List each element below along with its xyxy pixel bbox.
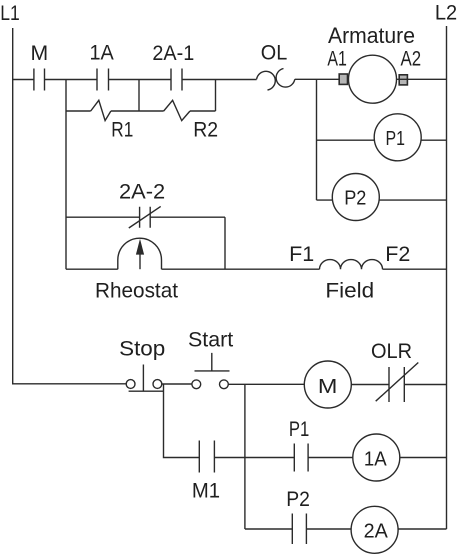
wire branch to contact P1 bbox=[245, 457, 294, 459]
branch drop M1 left bbox=[164, 384, 200, 458]
contact P2 bbox=[292, 514, 306, 545]
terminal A2 bbox=[399, 75, 407, 85]
svg-text:OLR: OLR bbox=[371, 340, 412, 363]
svg-text:Start: Start bbox=[188, 328, 233, 351]
contact P1 bbox=[294, 444, 308, 472]
branch drop to P coils bbox=[316, 80, 318, 201]
svg-text:F1: F1 bbox=[289, 243, 314, 266]
contact M bbox=[34, 69, 45, 91]
svg-text:P1: P1 bbox=[385, 127, 405, 150]
overload heater OL bbox=[257, 69, 295, 91]
wire coil 1A to L2 bbox=[400, 457, 447, 459]
contact M1 bbox=[199, 441, 214, 473]
svg-text:A1: A1 bbox=[327, 48, 347, 71]
svg-text:P1: P1 bbox=[289, 418, 309, 441]
wire contact P1 to coil 1A bbox=[308, 457, 353, 459]
wire 2A-2 branch left bbox=[66, 216, 140, 218]
svg-text:M: M bbox=[318, 375, 338, 398]
wire M1 to center branch bbox=[214, 457, 245, 459]
coil 1A bbox=[353, 434, 400, 481]
rheostat arrow bbox=[139, 252, 141, 269]
wire stop to start bbox=[162, 383, 192, 385]
junction drop at x225 bbox=[224, 217, 226, 269]
svg-text:L2: L2 bbox=[435, 1, 457, 24]
svg-text:M: M bbox=[31, 42, 49, 65]
wire start to coil M bbox=[228, 383, 304, 385]
field coil bbox=[320, 260, 383, 270]
coil 2A bbox=[351, 506, 398, 553]
contact OLR (NC) bbox=[376, 363, 419, 403]
svg-text:M1: M1 bbox=[192, 480, 220, 503]
junction drop at x215.5 bbox=[215, 80, 217, 112]
wire contact P2 to coil 2A bbox=[306, 528, 351, 530]
svg-text:F2: F2 bbox=[385, 243, 410, 266]
svg-text:1A: 1A bbox=[364, 448, 387, 471]
svg-text:Rheostat: Rheostat bbox=[95, 279, 178, 302]
contact 1A bbox=[97, 69, 109, 91]
wire OLR to L2 bbox=[404, 384, 446, 386]
wire 2A-2 branch right bbox=[150, 216, 225, 218]
svg-text:P2: P2 bbox=[344, 187, 366, 210]
coil P1 bbox=[374, 114, 421, 161]
svg-text:R2: R2 bbox=[193, 119, 218, 142]
svg-text:Armature: Armature bbox=[328, 23, 415, 48]
wire rheostat left bbox=[66, 268, 118, 270]
power rail L2 bbox=[446, 26, 448, 529]
wire branch to contact P2 bbox=[245, 528, 292, 530]
wire L1 to contact M bbox=[13, 79, 34, 81]
contact 2A-1 bbox=[171, 69, 182, 91]
wire R1 to R2 bbox=[111, 110, 164, 112]
svg-text:OL: OL bbox=[261, 41, 288, 64]
wire contact M to contact 1A bbox=[45, 79, 98, 81]
svg-text:P2: P2 bbox=[286, 488, 310, 511]
rheostat bbox=[118, 238, 162, 269]
wire OL to armature bbox=[295, 78, 349, 80]
wire coil P1 to L2 bbox=[421, 139, 447, 141]
coil P2 bbox=[332, 174, 379, 221]
svg-text:R1: R1 bbox=[111, 119, 133, 142]
wire field to L2 bbox=[383, 268, 447, 270]
wire contact 1A to contact 2A-1 bbox=[109, 79, 172, 81]
wire branch to coil P1 bbox=[317, 139, 375, 141]
svg-text:2A-2: 2A-2 bbox=[119, 180, 165, 203]
junction drop at x139 bbox=[138, 80, 140, 112]
terminal A1 bbox=[339, 74, 347, 84]
wire armature to L2 bbox=[397, 78, 447, 80]
coil M bbox=[304, 361, 351, 408]
junction drop at x66 bbox=[65, 80, 67, 270]
wire contact 2A-1 to OL bbox=[182, 79, 257, 81]
wire coil M to OLR bbox=[351, 384, 389, 386]
wire coil P2 to L2 bbox=[379, 199, 446, 201]
wire R2 to junction bbox=[190, 110, 216, 112]
svg-text:2A: 2A bbox=[364, 520, 389, 543]
pushbutton Start (NO) bbox=[192, 380, 201, 389]
contact 2A-2 (NC) bbox=[129, 206, 161, 228]
wire coil 2A to L2 bbox=[398, 528, 446, 530]
wire rheostat to field bbox=[162, 268, 320, 270]
resistor R2 bbox=[164, 100, 190, 120]
svg-text:1A: 1A bbox=[89, 42, 113, 65]
svg-text:A2: A2 bbox=[401, 48, 422, 71]
svg-text:Field: Field bbox=[325, 279, 374, 302]
resistor R1 bbox=[91, 100, 111, 120]
armature motor circle bbox=[349, 55, 397, 103]
center branch drop bbox=[244, 384, 246, 529]
wire branch to coil P2 bbox=[317, 199, 334, 201]
power rail L1 bbox=[13, 28, 127, 384]
svg-text:Stop: Stop bbox=[119, 338, 165, 361]
wire resistor branch left bbox=[66, 110, 91, 112]
svg-text:2A-1: 2A-1 bbox=[152, 42, 194, 65]
svg-text:L1: L1 bbox=[0, 2, 20, 25]
pushbutton Stop (NC) bbox=[126, 380, 135, 389]
